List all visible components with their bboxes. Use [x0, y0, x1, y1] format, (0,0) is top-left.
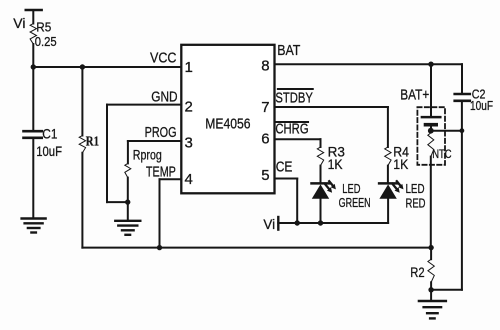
svg-text:Rprog: Rprog — [133, 148, 162, 163]
svg-text:GND: GND — [151, 88, 177, 105]
svg-text:4: 4 — [185, 171, 193, 188]
svg-text:R2: R2 — [410, 264, 425, 280]
svg-text:C1: C1 — [42, 126, 57, 142]
svg-text:R5: R5 — [36, 20, 51, 35]
svg-text:ME4056: ME4056 — [205, 115, 250, 132]
svg-text:GREEN: GREEN — [339, 196, 371, 210]
svg-text:5: 5 — [261, 167, 269, 184]
svg-text:RED: RED — [406, 197, 426, 211]
svg-text:Vi: Vi — [263, 217, 275, 232]
svg-text:3: 3 — [185, 135, 193, 152]
svg-text:BAT+: BAT+ — [400, 88, 429, 104]
svg-text:CHRG: CHRG — [275, 121, 308, 137]
svg-text:8: 8 — [261, 58, 269, 75]
svg-text:2: 2 — [185, 99, 193, 116]
svg-text:0.25: 0.25 — [35, 34, 57, 49]
svg-text:1K: 1K — [328, 157, 343, 172]
svg-text:1K: 1K — [393, 157, 408, 172]
svg-text:R1: R1 — [86, 133, 99, 148]
svg-text:10uF: 10uF — [36, 143, 62, 159]
svg-text:LED: LED — [342, 182, 360, 196]
svg-text:NTC: NTC — [432, 147, 452, 161]
svg-text:LED: LED — [406, 182, 425, 196]
svg-text:1: 1 — [185, 59, 193, 76]
svg-text:TEMP: TEMP — [146, 163, 176, 180]
svg-text:10uF: 10uF — [470, 99, 493, 113]
svg-text:VCC: VCC — [150, 49, 177, 66]
svg-text:Vi: Vi — [13, 15, 25, 31]
svg-text:STDBY: STDBY — [275, 91, 313, 107]
svg-text:6: 6 — [261, 131, 269, 148]
svg-text:BAT: BAT — [277, 42, 300, 59]
svg-text:PROG: PROG — [145, 124, 177, 141]
svg-text:CE: CE — [276, 159, 293, 176]
svg-text:7: 7 — [261, 99, 269, 116]
